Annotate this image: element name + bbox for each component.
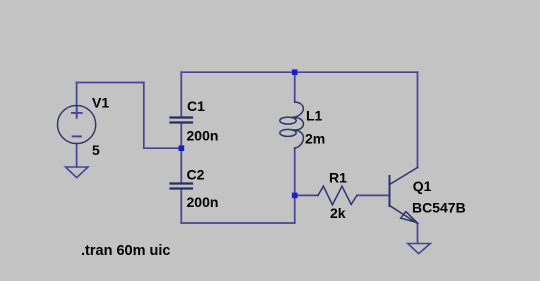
wire capacitor branch top bbox=[180, 72, 182, 117]
svg-text:R1: R1 bbox=[329, 170, 347, 186]
capacitor C2 bbox=[171, 182, 193, 184]
node junction between V1 and C1/C2 bbox=[179, 145, 185, 151]
svg-text:C1: C1 bbox=[187, 98, 205, 114]
voltage source V1 circle bbox=[58, 105, 96, 143]
svg-text:200n: 200n bbox=[187, 128, 219, 144]
wire top-left horizontal bbox=[77, 82, 144, 84]
wire V1 plus lead bbox=[76, 83, 78, 107]
wire R1 to Q1 base bbox=[357, 194, 390, 196]
svg-text:5: 5 bbox=[92, 142, 100, 158]
wire below C2 bbox=[180, 189, 182, 223]
transistor Q1 emitter arrow bbox=[401, 212, 417, 223]
V1 minus sign bbox=[73, 135, 81, 137]
ground below Q1 bbox=[408, 244, 431, 254]
svg-text:BC547B: BC547B bbox=[412, 200, 466, 216]
wire to node A bbox=[144, 147, 182, 149]
capacitor C1 bbox=[171, 116, 193, 118]
wire mid vertical down to node bbox=[143, 83, 145, 149]
wire V1 minus lead bbox=[76, 144, 78, 168]
node junction top bus / L1 bbox=[292, 69, 298, 75]
svg-text:L1: L1 bbox=[306, 107, 323, 123]
wire L1 bottom lead bbox=[294, 148, 296, 223]
wire Q1 emitter vertical bbox=[417, 224, 419, 244]
wire node B to R1 bbox=[295, 194, 318, 196]
transistor Q1 base bar bbox=[389, 176, 391, 206]
resistor R1 zigzag bbox=[318, 186, 357, 205]
svg-text:200n: 200n bbox=[187, 194, 219, 210]
V1 plus sign bbox=[72, 108, 82, 118]
wire bottom horizontal bbox=[181, 222, 294, 224]
svg-text:2k: 2k bbox=[330, 205, 346, 221]
wire L1 top lead bbox=[294, 72, 296, 102]
wire top horizontal bus bbox=[181, 71, 417, 73]
svg-text:.tran 60m uic: .tran 60m uic bbox=[81, 243, 170, 259]
node junction L1 bottom / R1 bbox=[292, 193, 298, 199]
transistor Q1 emitter diagonal bbox=[390, 206, 418, 224]
inductor L1 coil bbox=[280, 102, 304, 148]
wire Q1 collector vertical bbox=[417, 72, 419, 167]
ground below V1 bbox=[66, 167, 89, 178]
svg-text:V1: V1 bbox=[92, 95, 109, 111]
svg-text:C2: C2 bbox=[187, 167, 205, 183]
svg-text:2m: 2m bbox=[305, 131, 325, 147]
svg-text:Q1: Q1 bbox=[413, 178, 432, 194]
wire between C1 and C2 bbox=[180, 123, 182, 183]
transistor Q1 collector diagonal bbox=[390, 168, 418, 185]
